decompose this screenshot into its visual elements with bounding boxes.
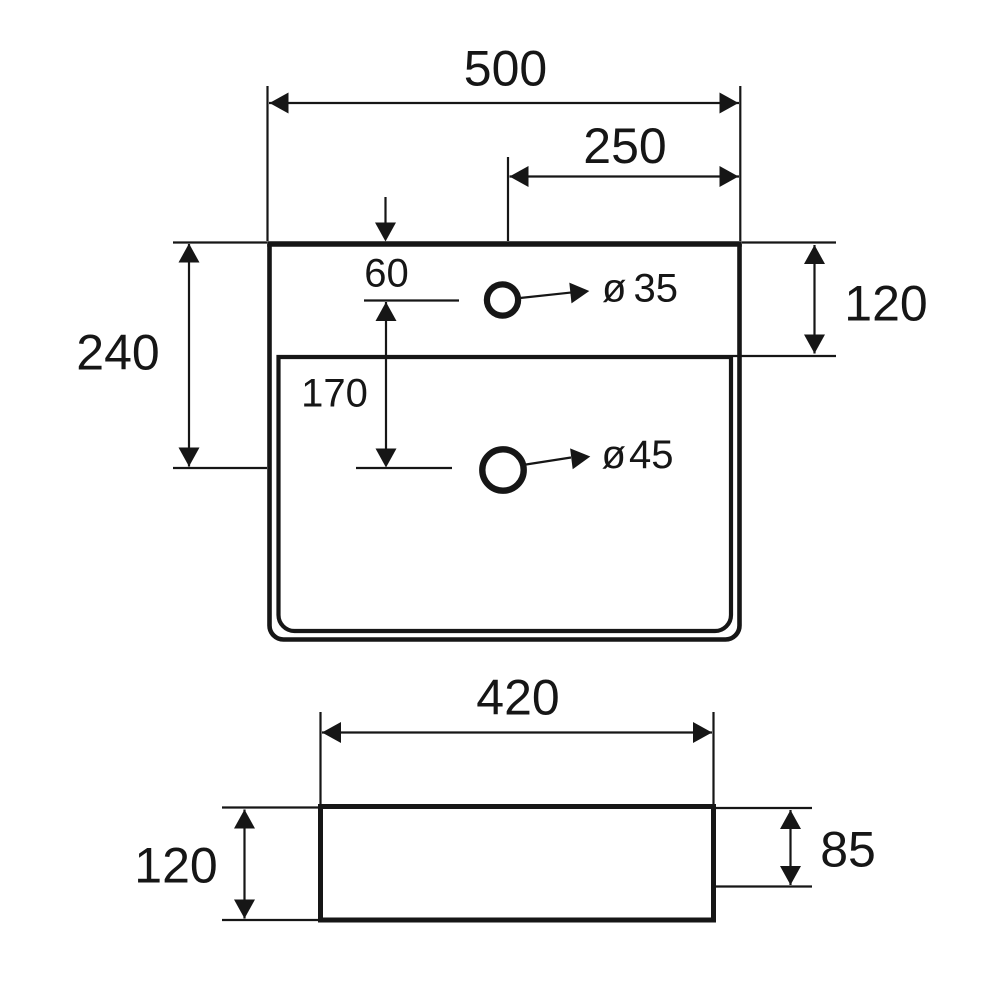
dim 60: faucet centerline [364, 299, 459, 301]
dim 85: top extension line [716, 807, 812, 809]
arrowhead dim 420 left [322, 722, 341, 743]
svg-text:120: 120 [134, 838, 217, 894]
arrowhead dim 60 pointer down [375, 223, 396, 242]
dim 500: right extension line [739, 86, 741, 241]
dim 170: vertical line faucet to drain [385, 302, 387, 449]
arrowhead dim 250 left [510, 166, 529, 187]
svg-text:ø45: ø45 [602, 433, 674, 477]
arrowhead dim 170 down [376, 449, 397, 468]
dim 250: extension line at hole centerline [507, 157, 509, 241]
svg-text:250: 250 [583, 118, 666, 174]
faucet hole circle [487, 284, 518, 315]
dim 240: top extension line [173, 241, 267, 243]
svg-text:120: 120 [844, 276, 927, 332]
basin top edge (thick) [267, 241, 742, 247]
dim 85: dimension line [789, 810, 791, 885]
dim 120 (side height): bottom extension line [222, 919, 318, 921]
arrowhead dim 120 rim bottom [804, 335, 825, 354]
dim 240: bottom extension line [173, 467, 267, 469]
leader line to ø45 label [526, 458, 571, 465]
arrowhead dim 85 top [780, 810, 801, 829]
arrowhead dim 250 right [720, 166, 739, 187]
dim 420: left extension line [319, 712, 321, 804]
dim 85: bottom extension line [716, 885, 812, 887]
dim 240: dimension line [188, 244, 190, 467]
svg-text:420: 420 [476, 670, 559, 726]
svg-text:170: 170 [301, 372, 368, 416]
dim 500: left extension line [266, 86, 268, 241]
side view body rectangle [321, 807, 714, 921]
dim 120 (rim depth): top extension line [742, 241, 836, 243]
arrowhead dim 120 rim top [804, 245, 825, 264]
arrowhead dim 420 right [693, 722, 712, 743]
dim 170: drain centerline [356, 467, 452, 469]
dim 60: pointer line above rim [384, 197, 386, 223]
arrowhead dim 170 up [376, 302, 397, 321]
svg-text:60: 60 [364, 252, 409, 296]
arrowhead dim 500 right [720, 93, 739, 114]
dim 120 (side height): dimension line [243, 810, 245, 919]
drain hole circle [482, 449, 523, 490]
arrowhead dim 240 top [179, 244, 200, 263]
svg-text:85: 85 [820, 822, 876, 878]
dim 120 (rim depth): dimension line [813, 245, 815, 354]
basin inner bowl outline [279, 357, 732, 631]
leader line to ø35 label [520, 292, 573, 298]
arrowhead dim 500 left [270, 93, 289, 114]
svg-text:ø35: ø35 [602, 267, 678, 311]
arrowhead dim 240 bottom [179, 448, 200, 467]
dim 420: right extension line [712, 712, 714, 804]
arrowhead dim 120 side top [234, 810, 255, 829]
svg-text:500: 500 [464, 41, 547, 97]
dim 120 (side height): top extension line [222, 806, 318, 808]
dim 420: dimension line [322, 731, 712, 733]
arrowhead dim 120 side bottom [234, 900, 255, 919]
arrowhead dim 85 bottom [780, 866, 801, 885]
arrowhead leader ø45 [570, 448, 590, 469]
arrowhead leader ø35 [569, 283, 589, 304]
dim 250: dimension line [510, 175, 740, 177]
basin outer outline (top view) [270, 244, 740, 640]
svg-text:240: 240 [76, 325, 159, 381]
dim 500: dimension line [269, 102, 739, 104]
dim 120 (rim depth): bottom extension line [733, 355, 836, 357]
